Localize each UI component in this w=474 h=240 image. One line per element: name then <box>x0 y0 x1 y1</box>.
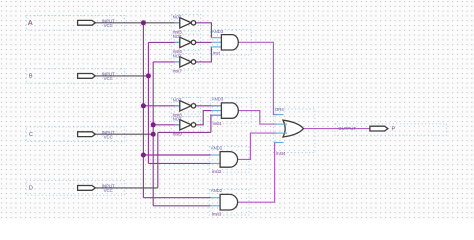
junction node A-NOT5 <box>141 20 146 25</box>
wire input B row <box>95 75 148 77</box>
pin stub NOT inst6 input <box>175 41 180 43</box>
input pin D symbol <box>78 186 96 191</box>
svg-text:NOT: NOT <box>173 54 182 59</box>
output pin P symbol <box>370 126 388 131</box>
label INPUT VCC pin D <box>102 184 115 194</box>
selection box NOT inst6 <box>171 34 200 51</box>
selection box NOT inst9 <box>171 117 200 134</box>
wire net A to AND2 inst3 input 1 <box>143 197 210 199</box>
input pin A symbol <box>78 20 96 25</box>
wire bus net D vertical <box>157 132 159 188</box>
pin stubs OR4 inst4 inputs <box>275 114 284 116</box>
svg-text:OR4: OR4 <box>275 107 284 112</box>
junction node C-pin <box>151 132 156 137</box>
selection box input pin D <box>26 181 124 196</box>
wire input C row <box>95 133 153 135</box>
label NOT inst6 <box>173 34 183 54</box>
input pin B symbol <box>78 74 96 79</box>
selection box AND3 inst <box>210 30 251 55</box>
selection box input pin B <box>26 69 124 84</box>
NOT gate inst7 <box>180 57 196 67</box>
wire OR4 output to pin P <box>304 128 370 130</box>
wire AND2 inst2 output to OR4 input 3 <box>238 133 277 159</box>
svg-text:AND3: AND3 <box>212 29 224 34</box>
wire input A row <box>95 22 180 24</box>
svg-text:inst9: inst9 <box>173 132 183 137</box>
pin stub OR4 input 2 overlay <box>284 123 288 125</box>
pin stub NOT inst5 input <box>175 22 180 24</box>
label NOT inst8 <box>173 97 183 117</box>
svg-text:VCC: VCC <box>104 188 113 193</box>
svg-text:NOT: NOT <box>173 34 182 39</box>
AND3 gate inst <box>221 35 238 50</box>
wire AND3 inst output to OR4 input 1 <box>238 42 277 114</box>
junction node B <box>146 73 151 78</box>
svg-text:C: C <box>29 132 33 138</box>
label NOT inst5 <box>173 14 183 34</box>
junction node C-NOT9 <box>151 122 156 127</box>
AND2 gate inst2 <box>220 152 237 168</box>
wire input D row <box>95 187 158 189</box>
wire NOT inst5 output to AND3 inst input 1 <box>196 23 212 38</box>
svg-text:inst1: inst1 <box>213 121 223 126</box>
label NOT inst7 <box>173 54 183 74</box>
label AND3 inst <box>212 29 224 55</box>
label INPUT VCC pin B <box>102 72 115 82</box>
wire net D horizontal run <box>158 131 211 133</box>
label AND2 inst2 <box>211 145 223 174</box>
pin stubs AND2 inst3 inputs <box>211 197 220 199</box>
wire bus net A vertical <box>142 23 144 198</box>
label INPUT VCC pin C <box>102 130 115 140</box>
svg-text:NOT: NOT <box>173 14 182 19</box>
pin stub NOT inst7 input <box>175 61 180 63</box>
svg-text:inst: inst <box>213 50 221 55</box>
pin stubs AND2 inst2 inputs <box>211 154 220 156</box>
selection box input pin C <box>26 127 124 142</box>
svg-text:AND2: AND2 <box>211 188 223 193</box>
wire bus net C vertical <box>152 62 154 206</box>
svg-text:VCC: VCC <box>104 134 113 139</box>
svg-text:AND2: AND2 <box>211 145 223 150</box>
selection box AND3 inst1 <box>210 98 251 123</box>
svg-text:VCC: VCC <box>104 23 113 28</box>
selection box output pin P <box>335 124 447 135</box>
label AND3 inst1 <box>212 97 224 127</box>
wire net C to AND2 inst3 input 2 <box>153 205 211 207</box>
wire net B branch to NOT inst6 <box>148 41 179 43</box>
label NOT inst9 <box>173 116 183 136</box>
wire NOT inst8 output to AND3 inst1 input 1 <box>196 105 222 107</box>
AND3 gate inst1 <box>221 103 238 118</box>
svg-text:NOT: NOT <box>173 97 182 102</box>
wire NOT inst6 output to AND3 inst input 2 <box>196 41 212 43</box>
pin stubs AND3 inst inputs <box>211 37 221 39</box>
pin stub NOT inst8 input <box>175 105 180 107</box>
svg-text:AND3: AND3 <box>212 97 224 102</box>
label AND2 inst3 <box>211 188 223 217</box>
svg-text:inst4: inst4 <box>276 151 286 156</box>
label INPUT VCC pin A <box>102 19 115 29</box>
junction node A-NOT8 <box>141 103 146 108</box>
wire net C branch to NOT inst9 <box>153 124 180 126</box>
label OR4 inst4 <box>275 107 286 156</box>
NOT gate inst9 <box>180 120 196 130</box>
NOT gate inst8 <box>180 101 196 111</box>
svg-text:OUTPUT: OUTPUT <box>338 126 356 131</box>
selection box NOT inst5 <box>171 15 200 32</box>
selection box AND2 inst3 <box>209 189 249 215</box>
selection box AND2 inst2 <box>209 147 249 173</box>
svg-text:inst2: inst2 <box>212 169 222 174</box>
input pin C symbol <box>78 132 96 137</box>
NOT gate inst5 <box>180 18 196 28</box>
NOT gate inst6 <box>180 37 196 47</box>
wire AND3 inst1 output to OR4 input 2 <box>238 111 277 125</box>
wire AND2 inst3 output to OR4 input 4 <box>238 143 277 203</box>
pin stubs AND3 inst1 inputs <box>211 105 221 107</box>
svg-text:NOT: NOT <box>173 116 182 121</box>
junction node A-AND2 <box>141 153 146 158</box>
selection box OR4 inst4 <box>273 109 315 153</box>
wire NOT inst7 output to AND3 inst input 3 <box>196 47 212 62</box>
wire net A branch to AND2 inst2 input 1 <box>143 154 210 156</box>
wire NOT inst9 output to AND3 inst1 input 2 <box>196 111 212 125</box>
pin stub NOT inst9 input <box>175 124 180 126</box>
wire bus net B vertical <box>147 42 149 163</box>
selection box input pin A <box>26 16 124 31</box>
svg-text:P: P <box>392 127 396 133</box>
pin stub OR4 input 3 overlay <box>284 132 288 134</box>
svg-text:inst3: inst3 <box>212 212 222 217</box>
svg-text:inst7: inst7 <box>173 69 183 74</box>
svg-text:A: A <box>28 20 33 27</box>
wire net D riser to AND3 inst1 input 3 <box>211 115 222 132</box>
selection box NOT inst8 <box>171 98 200 115</box>
OR4 gate inst4 <box>283 120 304 137</box>
svg-text:VCC: VCC <box>104 76 113 81</box>
wire net B to AND2 inst2 input 2 <box>148 162 210 164</box>
wire net C branch to NOT inst7 <box>153 61 180 63</box>
wire net A branch to NOT inst8 <box>143 105 179 107</box>
svg-text:B: B <box>29 74 33 80</box>
selection box NOT inst7 <box>171 54 200 71</box>
svg-text:D: D <box>29 186 33 192</box>
AND2 gate inst3 <box>220 194 238 210</box>
